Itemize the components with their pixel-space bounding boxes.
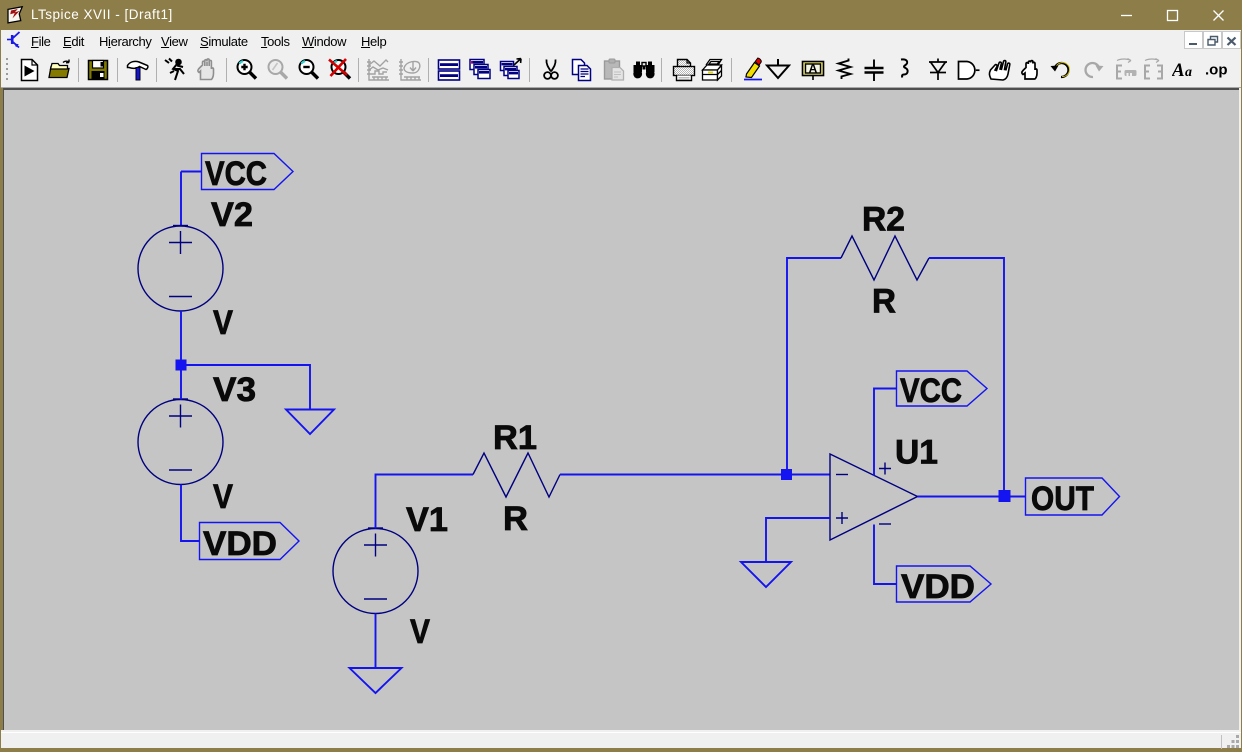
- status bar: [1, 734, 1241, 748]
- title bar: [0, 0, 1242, 30]
- svg-text:V1: V1: [406, 501, 448, 539]
- wire VCC flag1 stub: [181, 171, 201, 173]
- wire node to ground branch: [181, 365, 310, 410]
- svg-text:OUT: OUT: [1031, 480, 1094, 518]
- svg-text:V: V: [213, 478, 233, 516]
- resistor R2 body: [841, 236, 929, 280]
- wire node to V3 top pin: [180, 365, 182, 400]
- svg-text:VDD: VDD: [203, 525, 277, 563]
- op-amp U1 body: [830, 454, 918, 540]
- voltage source V1: [333, 528, 418, 614]
- voltage source V3: [138, 399, 223, 485]
- wire opamp VDD supply pin: [874, 525, 896, 585]
- net label VDD2 text: [901, 568, 975, 606]
- wire R1 to opamp inverting input: [560, 474, 830, 476]
- net label VCC2 text: [900, 372, 962, 410]
- svg-text:V: V: [213, 304, 233, 342]
- svg-text:VDD: VDD: [901, 568, 975, 606]
- flag VDD (opamp supply): [897, 566, 992, 602]
- wire V1 bottom pin to ground: [375, 614, 377, 669]
- ground (under V1): [350, 668, 402, 693]
- svg-text:R2: R2: [862, 201, 905, 239]
- svg-text:R: R: [503, 500, 528, 538]
- wire feedback left vertical: [787, 258, 841, 475]
- flag VCC (top-left): [202, 154, 294, 190]
- net label VDD text: [203, 525, 277, 563]
- wire V2 top pin: [180, 172, 182, 227]
- ground (opamp + input): [741, 562, 791, 587]
- value V of V1: [410, 613, 430, 651]
- flag VCC (opamp supply): [897, 371, 988, 406]
- svg-text:R1: R1: [493, 419, 537, 457]
- svg-text:V3: V3: [213, 371, 256, 409]
- menu bar: [1, 30, 1241, 52]
- value R of R2: [872, 283, 896, 321]
- wire V1 top pin up and right to R1: [376, 475, 474, 529]
- value V of V3: [213, 478, 233, 516]
- value R of R1: [503, 500, 528, 538]
- value V of V2: [213, 304, 233, 342]
- svg-text:U1: U1: [895, 434, 938, 472]
- label V2: [211, 196, 253, 234]
- svg-text:V2: V2: [211, 196, 253, 234]
- node junction (output/feedback): [999, 490, 1011, 502]
- label V1: [406, 501, 448, 539]
- net label OUT text: [1031, 480, 1094, 518]
- net label VCC text: [205, 155, 267, 193]
- wire opamp output: [918, 496, 1026, 498]
- svg-text:R: R: [872, 283, 896, 321]
- voltage source V2: [138, 226, 223, 312]
- svg-text:VCC: VCC: [205, 155, 267, 193]
- wire opamp VCC supply pin: [874, 389, 896, 476]
- svg-text:VCC: VCC: [900, 372, 962, 410]
- ground (top): [286, 410, 334, 435]
- toolbar: [1, 52, 1241, 88]
- flag OUT: [1026, 478, 1120, 515]
- wire V3 bottom pin: [181, 485, 199, 542]
- label R2: [862, 201, 905, 239]
- svg-text:V: V: [410, 613, 430, 651]
- resistor R1 body: [473, 453, 560, 497]
- label R1: [493, 419, 537, 457]
- label V3: [213, 371, 256, 409]
- node junction (V2/V3/gnd): [176, 360, 187, 371]
- flag VDD (left): [200, 523, 300, 560]
- wire opamp noninverting input to ground: [766, 518, 830, 562]
- node junction (R1/R2/U1-): [781, 469, 792, 480]
- label U1: [895, 434, 938, 472]
- wire V2 bottom pin to node: [180, 311, 182, 365]
- wire feedback right vertical to output: [929, 258, 1004, 497]
